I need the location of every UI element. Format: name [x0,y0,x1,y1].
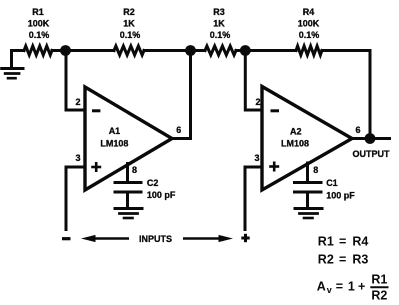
svg-text:=: = [339,235,346,249]
svg-text:R3: R3 [352,253,368,267]
svg-text:6: 6 [176,125,181,135]
svg-text:v: v [327,285,332,295]
svg-text:3: 3 [254,153,259,163]
svg-text:R2: R2 [318,253,334,267]
svg-text:A1: A1 [109,126,121,136]
svg-text:+: + [358,279,365,293]
svg-text:R1: R1 [318,235,334,249]
svg-text:LM108: LM108 [281,139,309,149]
svg-text:R2: R2 [371,289,387,303]
svg-text:1: 1 [348,279,355,293]
svg-text:8: 8 [132,165,137,175]
svg-text:OUTPUT: OUTPUT [353,149,391,159]
svg-text:R2: R2 [123,7,135,17]
svg-text:2: 2 [75,97,80,107]
svg-text:=: = [339,253,346,267]
svg-text:C2: C2 [147,178,159,188]
svg-text:2: 2 [255,97,260,107]
svg-text:1K: 1K [123,18,135,28]
svg-text:R1: R1 [371,273,387,287]
svg-text:R1: R1 [32,7,44,17]
svg-text:INPUTS: INPUTS [139,234,172,244]
svg-text:R4: R4 [352,235,368,249]
svg-text:100 pF: 100 pF [326,191,355,201]
svg-text:=: = [336,279,343,293]
svg-text:6: 6 [356,125,361,135]
svg-text:1K: 1K [213,18,225,28]
svg-text:0.1%: 0.1% [299,30,320,40]
svg-text:R3: R3 [213,7,225,17]
svg-text:3: 3 [75,153,80,163]
svg-text:A2: A2 [290,127,302,137]
svg-text:C1: C1 [326,178,338,188]
svg-text:100 pF: 100 pF [147,190,176,200]
svg-text:0.1%: 0.1% [210,30,231,40]
svg-text:R4: R4 [303,7,315,17]
svg-text:8: 8 [313,165,318,175]
svg-text:100K: 100K [28,18,50,28]
svg-text:A: A [317,279,326,293]
svg-text:0.1%: 0.1% [120,30,141,40]
svg-text:0.1%: 0.1% [29,30,50,40]
svg-text:100K: 100K [298,18,320,28]
svg-text:LM108: LM108 [100,139,128,149]
